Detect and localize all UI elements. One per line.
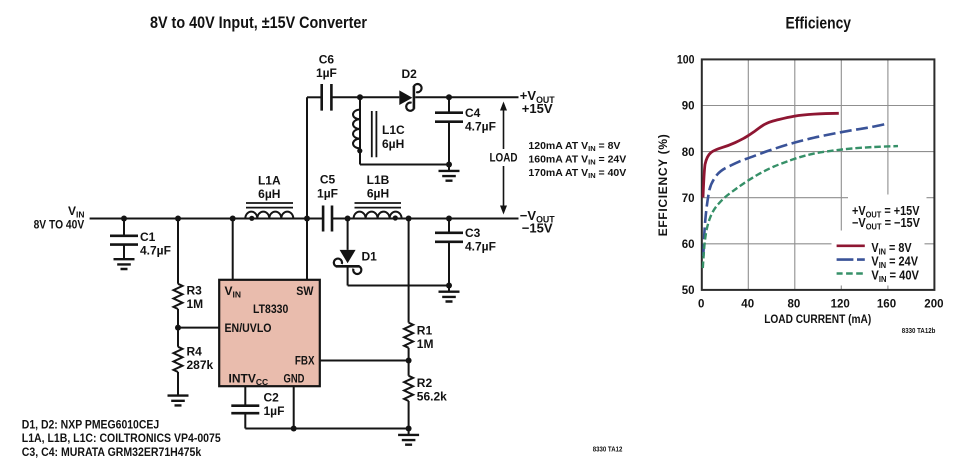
svg-text:120: 120 <box>831 298 850 310</box>
svg-text:C1: C1 <box>140 230 156 244</box>
node M: L1C top junction <box>357 94 363 100</box>
resistor R4 <box>174 345 214 396</box>
svg-text:287k: 287k <box>187 358 214 372</box>
node G: C3 junction <box>446 216 452 222</box>
ground (C3/D1) <box>448 286 450 292</box>
wire: EN/UVLO to divider <box>178 327 220 329</box>
inductor L1A <box>245 174 293 221</box>
y axis tick labels <box>677 55 695 298</box>
ground (L1C/C4) <box>448 165 450 171</box>
svg-text:80: 80 <box>788 298 801 310</box>
node A: C1 junction <box>121 216 127 222</box>
svg-text:C3: C3 <box>465 226 481 240</box>
svg-text:SW: SW <box>296 284 314 298</box>
svg-text:90: 90 <box>682 101 695 113</box>
node L: ground rail junction <box>406 426 412 432</box>
svg-text:100: 100 <box>677 55 695 67</box>
svg-text:+15V: +15V <box>522 101 553 116</box>
svg-text:50: 50 <box>682 285 695 297</box>
curve VIN=40V (green) <box>703 146 898 268</box>
node C: VIN pin junction <box>230 216 236 222</box>
svg-text:EFFICIENCY (%): EFFICIENCY (%) <box>656 134 670 236</box>
svg-text:6µH: 6µH <box>258 187 280 201</box>
svg-text:0: 0 <box>698 298 704 310</box>
curve VIN=24V (blue) <box>703 124 886 256</box>
wire: main rail right of C5 to -VOUT <box>332 218 519 220</box>
legend VIN=8V <box>837 245 865 248</box>
svg-text:C5: C5 <box>320 173 336 187</box>
svg-text:D1: D1 <box>362 249 378 263</box>
chart frame <box>702 59 935 290</box>
svg-text:200: 200 <box>924 298 943 310</box>
svg-text:4.7µF: 4.7µF <box>465 240 496 254</box>
svg-text:LT8330: LT8330 <box>253 302 289 316</box>
svg-text:Efficiency: Efficiency <box>786 15 852 33</box>
capacitor C6 <box>307 52 399 110</box>
wire: FBX <box>320 360 409 362</box>
node D: SW/C6/C5 junction <box>304 216 310 222</box>
node O: C4 top junction <box>446 94 452 100</box>
svg-text:LOAD CURRENT (mA): LOAD CURRENT (mA) <box>764 312 871 326</box>
svg-text:D1, D2: NXP PMEG6010CEJ: D1, D2: NXP PMEG6010CEJ <box>22 417 159 431</box>
svg-text:4.7µF: 4.7µF <box>140 244 171 258</box>
svg-text:LOAD: LOAD <box>490 151 518 165</box>
svg-text:L1B: L1B <box>367 173 390 187</box>
diode D2 <box>399 67 421 111</box>
chart gridlines <box>702 59 935 290</box>
svg-text:170mA AT VIN = 40V: 170mA AT VIN = 40V <box>528 167 626 180</box>
node H: EN/UVLO junction <box>175 325 181 331</box>
svg-text:60: 60 <box>682 239 695 251</box>
curve VIN=8V (red) <box>703 113 839 197</box>
svg-text:L1C: L1C <box>382 123 405 137</box>
LOAD arrow <box>490 102 518 215</box>
load current annotations <box>528 140 626 180</box>
svg-text:1M: 1M <box>187 297 204 311</box>
svg-text:R3: R3 <box>187 284 203 298</box>
capacitor C2 <box>231 386 284 428</box>
resistor R1 <box>404 219 433 376</box>
wire: GND pin <box>293 386 295 428</box>
svg-text:D2: D2 <box>402 67 418 81</box>
svg-text:8V TO 40V: 8V TO 40V <box>34 218 85 232</box>
wire: SW pin / C6 riser <box>306 97 308 279</box>
inductor L1B <box>354 173 402 221</box>
svg-text:8330 TA12b: 8330 TA12b <box>902 328 936 335</box>
svg-text:1M: 1M <box>417 337 434 351</box>
ground (rail) <box>408 429 410 435</box>
svg-text:6µH: 6µH <box>382 137 404 151</box>
capacitor C5 <box>317 173 338 232</box>
svg-text:1µF: 1µF <box>316 66 337 80</box>
wire: L1C bottom to ground rail <box>360 164 449 166</box>
svg-text:FBX: FBX <box>295 353 315 367</box>
node I: FBX junction <box>406 358 412 364</box>
svg-text:−VOUT = −15V: −VOUT = −15V <box>852 216 921 232</box>
svg-text:VIN = 40V: VIN = 40V <box>871 268 919 284</box>
svg-text:160mA AT VIN = 24V: 160mA AT VIN = 24V <box>528 154 626 167</box>
svg-text:6µH: 6µH <box>367 187 389 201</box>
svg-text:8330 TA12: 8330 TA12 <box>593 446 623 453</box>
ground (C1) <box>114 259 135 269</box>
svg-text:70: 70 <box>682 193 695 205</box>
node E: D1/L1B junction <box>345 216 351 222</box>
svg-text:40: 40 <box>741 298 754 310</box>
capacitor C4 <box>435 97 496 164</box>
node +VOUT label <box>520 88 555 116</box>
legend background masks <box>848 195 927 237</box>
x axis tick labels <box>698 298 943 310</box>
ground (R4) <box>168 396 189 406</box>
svg-text:L1A, L1B, L1C: COILTRONICS VP4: L1A, L1B, L1C: COILTRONICS VP4-0075 <box>22 431 221 445</box>
capacitor C3 <box>435 219 496 286</box>
svg-text:1µF: 1µF <box>264 404 285 418</box>
svg-text:EN/UVLO: EN/UVLO <box>225 321 272 335</box>
capacitor C1 <box>110 219 171 259</box>
node K: GND pin junction <box>291 426 297 432</box>
node N: C4 ground node <box>446 162 452 168</box>
svg-text:L1A: L1A <box>258 174 281 188</box>
svg-text:C3, C4: MURATA GRM32ER71H475k: C3, C4: MURATA GRM32ER71H475k <box>22 445 202 459</box>
svg-text:8V to 40V Input, ±15V Converte: 8V to 40V Input, ±15V Converter <box>150 13 367 32</box>
resistor R3 <box>174 219 204 347</box>
svg-text:C2: C2 <box>264 390 280 404</box>
wire: D1 cathode to C3 ground node <box>348 285 449 287</box>
wire: VIN pin <box>232 219 234 280</box>
svg-text:GND: GND <box>284 372 305 386</box>
svg-text:160: 160 <box>877 298 896 310</box>
svg-text:4.7µF: 4.7µF <box>465 120 496 134</box>
node B: R3 junction <box>175 216 181 222</box>
svg-text:120mA AT VIN = 8V: 120mA AT VIN = 8V <box>528 140 620 153</box>
node -VOUT label <box>520 208 555 236</box>
node J: C3/D1 ground node <box>446 283 452 289</box>
svg-text:56.2k: 56.2k <box>417 390 447 404</box>
svg-text:1µF: 1µF <box>317 187 338 201</box>
legend VIN=24V <box>837 258 865 261</box>
inductor L1C <box>353 97 405 164</box>
resistor R2 <box>404 376 447 429</box>
svg-text:80: 80 <box>682 147 695 159</box>
node F: L1B/R1 junction <box>406 216 412 222</box>
wire: bottom GND rail <box>245 428 408 430</box>
svg-text:R2: R2 <box>417 376 433 390</box>
svg-text:−15V: −15V <box>522 220 553 235</box>
wire: main VIN rail (left of C5) <box>90 218 324 220</box>
svg-text:R4: R4 <box>187 345 203 359</box>
legend VIN=40V <box>837 272 863 275</box>
node VIN input label <box>34 204 85 232</box>
op-amp U1: LT8330 IC body <box>219 280 320 387</box>
svg-text:R1: R1 <box>417 324 433 338</box>
diode D1 <box>334 219 377 286</box>
wire: D2 to +VOUT <box>415 96 518 98</box>
svg-text:C4: C4 <box>465 106 481 120</box>
svg-text:C6: C6 <box>319 52 335 66</box>
BOM notes <box>22 417 221 459</box>
